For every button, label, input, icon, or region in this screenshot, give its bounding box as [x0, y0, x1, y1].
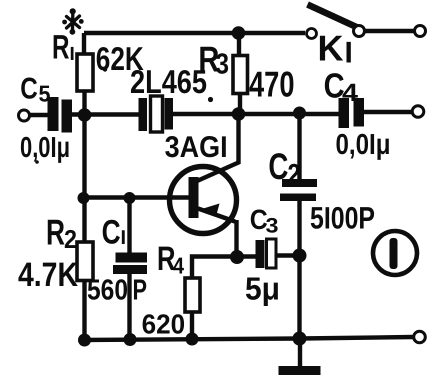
svg-text:3: 3 [216, 49, 230, 81]
svg-text:R: R [52, 29, 70, 67]
svg-text:K: K [318, 28, 344, 69]
svg-text:P: P [133, 275, 148, 307]
svg-text:5: 5 [39, 81, 51, 107]
svg-text:2: 2 [288, 159, 301, 191]
svg-text:620: 620 [142, 309, 186, 340]
svg-text:C: C [20, 72, 38, 105]
svg-text:R: R [46, 212, 65, 253]
svg-text:C: C [102, 214, 121, 252]
svg-text:5I00P: 5I00P [310, 201, 375, 236]
svg-text:560: 560 [87, 275, 128, 307]
svg-text:3: 3 [266, 215, 279, 238]
svg-text:4.7K: 4.7K [18, 256, 78, 294]
svg-text:4: 4 [342, 79, 358, 107]
svg-text:I: I [121, 227, 127, 249]
svg-text:3AGI: 3AGI [165, 131, 228, 164]
svg-text:2: 2 [64, 224, 77, 254]
svg-text:I: I [345, 37, 353, 70]
svg-text:I: I [70, 44, 75, 65]
svg-text:2L465: 2L465 [130, 63, 207, 100]
svg-text:0,0Iμ: 0,0Iμ [336, 129, 391, 161]
svg-text:C: C [268, 146, 288, 187]
svg-text:470: 470 [249, 64, 295, 105]
svg-text:4: 4 [173, 253, 184, 279]
svg-text:0,0Iμ: 0,0Iμ [20, 132, 70, 164]
svg-text:5μ: 5μ [245, 271, 280, 307]
